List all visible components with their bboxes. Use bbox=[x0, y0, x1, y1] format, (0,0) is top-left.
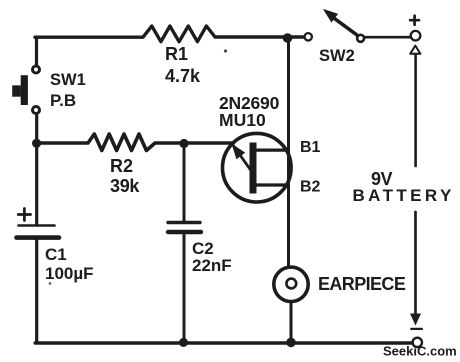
svg-text:MU10: MU10 bbox=[219, 110, 266, 130]
svg-text:22nF: 22nF bbox=[192, 256, 232, 275]
svg-text:39k: 39k bbox=[110, 176, 140, 196]
svg-text:P.B: P.B bbox=[50, 91, 76, 110]
svg-text:C1: C1 bbox=[45, 245, 67, 264]
svg-text:R1: R1 bbox=[165, 44, 188, 64]
svg-text:4.7k: 4.7k bbox=[165, 66, 201, 86]
svg-text:B1: B1 bbox=[300, 139, 321, 156]
svg-text:R2: R2 bbox=[110, 156, 133, 176]
svg-text:SW2: SW2 bbox=[319, 47, 355, 65]
svg-text:SeekiC.com: SeekiC.com bbox=[383, 344, 457, 359]
svg-text:BATTERY: BATTERY bbox=[353, 186, 455, 205]
svg-text:EARPIECE: EARPIECE bbox=[318, 274, 406, 294]
svg-text:100µF: 100µF bbox=[45, 264, 94, 283]
svg-text:SW1: SW1 bbox=[50, 71, 86, 89]
svg-text:B2: B2 bbox=[300, 179, 321, 196]
